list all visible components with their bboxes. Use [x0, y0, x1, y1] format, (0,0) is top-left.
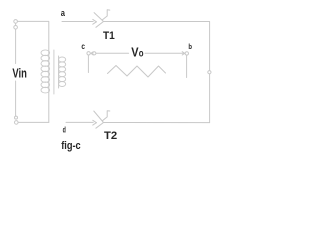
thyristor T2 diagonal upper-left: [94, 111, 104, 123]
source terminal circle bottom-left upper: [15, 116, 18, 119]
thyristor T2 diagonal lower-left: [96, 123, 104, 129]
source terminal circle top-left upper: [14, 20, 18, 24]
svg-text:d: d: [63, 126, 66, 135]
node circle on right bus: [208, 71, 211, 74]
node c terminal circle right: [93, 52, 96, 55]
thyristor T1 arrow stroke lower: [93, 22, 97, 24]
svg-text:c: c: [81, 41, 85, 51]
wire: top-left horizontal to transformer primary: [17, 21, 48, 122]
thyristor T1 gate lead: [102, 10, 110, 20]
transformer core lines: [53, 50, 55, 94]
svg-text:fig-c: fig-c: [61, 140, 80, 152]
thyristor T1 arrow stroke upper: [93, 19, 97, 21]
svg-text:a: a: [61, 8, 66, 19]
thyristor T2 gate lead: [102, 111, 110, 121]
wire: left rail lower (below Vin): [15, 81, 17, 116]
wire: node b stub down: [186, 55, 188, 77]
thyristor T2 arrow stroke upper: [93, 120, 97, 122]
source terminal circle top-left lower: [14, 26, 18, 30]
svg-text:V: V: [131, 45, 139, 60]
svg-text:o: o: [139, 49, 144, 60]
transformer secondary feed wire: [58, 56, 60, 88]
source terminal circle bottom-left lower: [14, 121, 18, 125]
wire: top rail from node a through T1 to right bus: [62, 21, 93, 23]
svg-text:T2: T2: [104, 130, 117, 142]
wire: Vo measurement line left segment: [96, 52, 129, 54]
transformer primary winding: [41, 50, 50, 93]
wire: bottom rail from right bus through T2 to node d: [104, 122, 210, 124]
wire: stub between top-left terminals: [15, 23, 17, 25]
wire: node c stub down: [87, 55, 89, 72]
wire: Vo measurement line right segment: [145, 52, 184, 54]
node b terminal circle: [185, 52, 188, 55]
thyristor T2 arrow stroke lower: [93, 123, 97, 125]
thyristor T1 diagonal lower-left: [96, 22, 104, 28]
resistor load zigzag: [108, 66, 166, 78]
wire: right bus lower segment: [209, 74, 211, 123]
svg-text:b: b: [188, 42, 192, 51]
node c arrow pointing left: [91, 52, 93, 55]
thyristor T1 diagonal upper-left: [94, 13, 103, 22]
svg-text:T1: T1: [103, 30, 115, 42]
wire: left rail upper (above Vin): [15, 29, 17, 63]
svg-text:Vin: Vin: [12, 66, 27, 81]
wire: bottom-left horizontal to transformer primary: [18, 121, 49, 123]
node b arrow pointing right: [182, 52, 185, 55]
transformer secondary winding: [59, 57, 66, 87]
node c terminal circle left: [87, 52, 90, 55]
